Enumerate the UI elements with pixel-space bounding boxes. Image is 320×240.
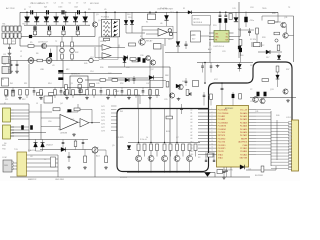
ground <box>217 65 219 66</box>
terminal block J9 <box>14 33 17 38</box>
resistor R1 <box>33 31 36 35</box>
diode D5 <box>125 78 129 82</box>
transistor Q2 <box>41 43 46 48</box>
wire x239 vertical <box>238 2 240 58</box>
svg-text:D21: D21 <box>248 169 251 171</box>
resistor R42 <box>61 37 63 43</box>
node junction <box>155 12 157 14</box>
wire gather x58 <box>57 155 59 177</box>
svg-text:XTAL1: XTAL1 <box>218 157 223 160</box>
wire y52 rail <box>165 52 211 54</box>
microphone MK1 <box>78 78 83 83</box>
capacitor C21 electrolytic <box>219 12 221 15</box>
svg-text:D10: D10 <box>128 17 131 19</box>
wire main rail y87 <box>0 87 163 89</box>
transistor Q14 <box>260 98 265 103</box>
wire mcu pin lead right <box>256 141 271 143</box>
svg-text:Y2: Y2 <box>250 89 252 91</box>
resistor R15 <box>65 85 68 90</box>
capacitor C30 electrolytic <box>143 58 146 62</box>
capacitor C44 <box>226 167 228 170</box>
resistor R59 <box>72 90 75 96</box>
node junction <box>65 12 67 14</box>
wire y97 <box>250 97 296 99</box>
svg-text:OUT4: OUT4 <box>101 117 105 119</box>
optocoupler U2 <box>28 58 34 64</box>
svg-text:P0.7/AD7: P0.7/AD7 <box>240 134 247 137</box>
svg-text:LM2576-5.0: LM2576-5.0 <box>214 46 226 48</box>
label box PSU <box>192 16 211 26</box>
svg-text:RXD: RXD <box>2 145 7 147</box>
svg-text:P3.4/T0: P3.4/T0 <box>218 151 224 153</box>
capacitor C24 electrolytic <box>244 17 247 23</box>
transistor Q6 <box>148 156 154 162</box>
wire rail y73 <box>58 73 122 75</box>
svg-text:T2: T2 <box>55 41 57 43</box>
wire link to thick bus <box>204 63 206 84</box>
svg-text:OUT1: OUT1 <box>101 106 105 108</box>
node junction <box>46 12 48 14</box>
wire rail y95 <box>55 94 140 96</box>
transistor Q17 <box>150 60 155 65</box>
node junction <box>225 12 227 14</box>
resistor R70 <box>149 90 152 96</box>
capacitor C25 <box>249 28 251 31</box>
svg-text:470u: 470u <box>250 20 254 22</box>
wire y80 <box>85 79 150 81</box>
svg-text:C26: C26 <box>250 101 253 103</box>
wire y132 <box>12 132 46 134</box>
capacitor C39 electrolytic <box>238 46 241 49</box>
svg-text:LM358N: LM358N <box>60 133 68 135</box>
svg-text:C4: C4 <box>54 3 56 5</box>
resistor R67 <box>128 90 131 96</box>
resistor R52b <box>239 40 242 46</box>
svg-text:P1.6/MISO: P1.6/MISO <box>218 129 227 131</box>
wire x210 drop <box>209 25 211 46</box>
wire opto bottom <box>105 36 107 38</box>
svg-text:C8: C8 <box>84 3 86 5</box>
svg-text:C24: C24 <box>250 7 253 9</box>
svg-text:1N4007: 1N4007 <box>46 145 54 147</box>
diode D30 <box>26 12 28 16</box>
svg-text:P3.3/INT1: P3.3/INT1 <box>218 148 226 150</box>
capacitor C53 <box>100 88 102 91</box>
svg-text:C41: C41 <box>255 111 258 113</box>
svg-text:J12: J12 <box>3 64 6 66</box>
svg-text:TB2: TB2 <box>22 24 25 26</box>
svg-text:1k: 1k <box>146 137 148 139</box>
svg-text:C6: C6 <box>69 3 71 5</box>
svg-text:PS1: PS1 <box>213 25 217 27</box>
wire mcu pin lead right <box>256 112 271 114</box>
wire green drops <box>209 42 211 63</box>
wire y80 ext <box>150 80 166 82</box>
ground <box>19 97 21 98</box>
diode D14 <box>124 56 128 60</box>
svg-text:LM317: LM317 <box>190 35 196 37</box>
wire mcu pin lead right <box>256 115 271 117</box>
capacitor C41 <box>12 88 14 91</box>
svg-text:T IN: T IN <box>14 149 18 151</box>
svg-text:P2.7/A15: P2.7/A15 <box>240 147 247 150</box>
wire y139 rail <box>18 139 60 141</box>
wire y60 rail <box>10 60 89 62</box>
resistor R18 <box>105 156 108 158</box>
node junction <box>219 12 221 14</box>
wire link x215 <box>214 173 216 178</box>
capacitor C9 <box>9 44 11 47</box>
diode D20 <box>176 84 180 88</box>
resistor R14 <box>49 93 55 96</box>
wire misc topright <box>275 21 281 23</box>
terminal block J8 <box>10 33 13 38</box>
wire x29 drop <box>28 104 30 140</box>
svg-text:D10: D10 <box>127 14 130 16</box>
svg-text:R40: R40 <box>276 115 279 117</box>
capacitor C19 <box>185 41 187 44</box>
resistor R4 <box>76 31 79 35</box>
resistor R23 <box>176 144 179 146</box>
node junction <box>26 12 28 14</box>
transistor Q20 <box>168 29 171 32</box>
capacitor C44 <box>33 88 35 91</box>
capacitor C50 <box>79 88 81 91</box>
svg-text:F1: F1 <box>24 9 26 11</box>
diode D36 <box>84 12 86 16</box>
svg-text:U5: U5 <box>104 9 106 11</box>
wire y112 ext <box>29 111 52 113</box>
wire terminal bottom bus <box>4 43 16 45</box>
wire y170 <box>246 169 276 171</box>
diode D33 <box>55 12 57 16</box>
wire feed <box>93 12 95 22</box>
node junction <box>176 12 178 14</box>
wire y149 <box>40 149 92 151</box>
wire mcu pin lead right <box>256 138 271 140</box>
wire link <box>77 29 79 32</box>
ic U11 microcontroller AT89S52 <box>217 106 249 168</box>
capacitor C45 <box>62 140 64 143</box>
resistor R43 <box>61 54 64 59</box>
svg-text:U4: U4 <box>30 156 32 158</box>
svg-text:J2: J2 <box>20 56 22 58</box>
wire x150 down <box>149 80 151 109</box>
svg-text:10: 10 <box>212 137 214 139</box>
svg-text:31: 31 <box>208 95 210 97</box>
capacitor C42 <box>203 92 205 95</box>
wire mcu pin lead right <box>256 154 271 156</box>
diode D8 <box>61 147 66 151</box>
wire pot right <box>98 149 106 151</box>
op-amp U19 <box>80 119 89 128</box>
svg-text:VCC +5V: VCC +5V <box>240 110 248 112</box>
capacitor C31 <box>205 158 207 161</box>
terminal block J2 <box>6 26 9 31</box>
svg-text:X3: X3 <box>198 157 200 159</box>
wire driver bottom rail <box>127 172 215 174</box>
resistor R10 <box>112 79 118 82</box>
wire y16 right <box>262 15 294 17</box>
wire stage feeds <box>138 109 140 143</box>
transistor Q19 <box>283 89 288 94</box>
svg-text:ADJ: ADJ <box>96 155 100 158</box>
resistor R44 <box>71 37 73 43</box>
crystal X3 <box>208 153 214 157</box>
wire gate bus <box>2 36 95 38</box>
diode D11 <box>131 12 133 20</box>
transistor Q9 <box>187 156 193 162</box>
wire driver top rail <box>128 142 200 144</box>
wire rs232 links <box>12 162 17 164</box>
svg-text:R33: R33 <box>272 13 275 15</box>
resistor R13 <box>37 93 43 96</box>
svg-text:SENSOR: SENSOR <box>71 74 80 76</box>
wire diode cathode bus <box>24 24 90 26</box>
wire after U16 <box>93 60 99 62</box>
wire mcu left harness <box>198 109 210 111</box>
optocoupler U13 <box>70 48 74 52</box>
svg-text:C16: C16 <box>48 121 51 123</box>
capacitor C3 <box>61 10 63 14</box>
svg-text:Q3: Q3 <box>70 83 73 85</box>
svg-text:OUT6: OUT6 <box>101 124 105 126</box>
capacitor C32 <box>213 158 215 161</box>
svg-text:D18: D18 <box>250 65 253 67</box>
resistor R37 <box>262 79 269 82</box>
crystal X4 below mcu <box>217 170 223 174</box>
wire vcc drop to mcu <box>221 83 223 88</box>
svg-text:LM358: LM358 <box>100 41 107 43</box>
capacitor C1 <box>30 10 32 14</box>
svg-text:F1: F1 <box>183 8 185 10</box>
svg-text:C2: C2 <box>44 7 46 9</box>
svg-text:P3.0/RXD: P3.0/RXD <box>218 138 226 140</box>
transistor Q18 <box>178 84 183 89</box>
terminal block J3 <box>10 26 13 31</box>
resistor R53 <box>26 90 29 96</box>
resistor R45 <box>71 54 74 59</box>
svg-text:OUT7: OUT7 <box>101 127 105 129</box>
node <box>204 62 206 64</box>
svg-text:PC817x4: PC817x4 <box>101 17 110 19</box>
wire comp out <box>168 31 170 33</box>
node junction <box>105 12 107 14</box>
wire y104 left <box>0 103 29 105</box>
resistor R7 <box>78 85 81 89</box>
ic U8 outline <box>99 37 118 59</box>
svg-text:TXD: TXD <box>2 149 6 151</box>
wire y139 ext <box>60 139 88 141</box>
wire top supply bus <box>20 11 278 13</box>
terminal block J1 <box>2 26 5 31</box>
capacitor C36 <box>77 25 79 26</box>
transistor Q3 <box>64 91 69 96</box>
capacitor C38 <box>185 78 187 81</box>
resistor R6 <box>37 59 43 62</box>
svg-text:P0.3/AD3: P0.3/AD3 <box>240 121 247 124</box>
wire terminal lead <box>11 39 13 45</box>
capacitor C48 <box>210 63 212 66</box>
svg-text:P1.3 AN3: P1.3 AN3 <box>218 118 225 121</box>
optocoupler U3 <box>46 58 52 64</box>
svg-text:C45: C45 <box>96 83 99 85</box>
capacitor C15 <box>133 76 135 79</box>
ic U4 MAX232 <box>17 152 27 176</box>
node driver rail junctions <box>138 142 139 143</box>
wire header leads <box>271 122 288 124</box>
wire second right bus <box>276 120 278 160</box>
svg-text:K1: K1 <box>146 22 148 24</box>
svg-text:C13: C13 <box>90 57 93 59</box>
svg-text:AMP: AMP <box>115 90 120 93</box>
svg-text:J11: J11 <box>3 54 6 56</box>
svg-text:P0.0/AD0: P0.0/AD0 <box>240 112 247 115</box>
ground <box>223 176 225 177</box>
wire mcu pin lead right <box>256 131 271 133</box>
ic U10 regulator <box>214 31 229 43</box>
wire relay feed <box>126 32 145 34</box>
wire link <box>48 29 50 32</box>
svg-text:X2 32k: X2 32k <box>250 39 256 41</box>
svg-text:C4: C4 <box>74 7 76 9</box>
svg-text:Q11: Q11 <box>284 17 287 19</box>
svg-text:EA/VPP: EA/VPP <box>241 137 248 140</box>
svg-text:R52: R52 <box>120 83 123 85</box>
wire link2 <box>88 24 90 26</box>
resistor R61 <box>86 90 89 96</box>
wire link <box>63 29 65 32</box>
resistor R11 <box>5 90 8 96</box>
wire harness P1 <box>14 109 29 111</box>
svg-text:OUT3: OUT3 <box>101 113 105 115</box>
capacitor C26 electrolytic <box>257 92 260 97</box>
module box sensor <box>70 76 88 95</box>
resistor R20 <box>137 144 140 146</box>
ground <box>66 97 68 98</box>
svg-text:Q4: Q4 <box>60 103 63 105</box>
svg-text:AC/DC: AC/DC <box>194 17 201 20</box>
transistor Q11 <box>281 22 286 27</box>
diode D13 <box>176 42 180 47</box>
transistor Q1 <box>92 22 97 27</box>
svg-text:RELAY: RELAY <box>146 40 153 43</box>
svg-text:AT89S52: AT89S52 <box>225 107 234 110</box>
resistor R71 <box>156 90 159 96</box>
svg-text:P1.2 AN2: P1.2 AN2 <box>218 115 225 118</box>
svg-text:PSEN: PSEN <box>243 145 248 147</box>
diode D6 <box>34 142 38 147</box>
resistor R26 <box>156 144 159 146</box>
svg-text:D16: D16 <box>240 55 243 57</box>
resistor R53 <box>74 108 80 111</box>
resistor R64 <box>107 90 110 96</box>
transistor Q12 <box>283 33 288 38</box>
capacitor C33 <box>34 25 36 26</box>
svg-text:RST/VPD: RST/VPD <box>218 135 226 137</box>
ground <box>40 97 42 98</box>
svg-text:IN5: IN5 <box>120 111 123 113</box>
diode D22 <box>124 57 126 59</box>
diode D23 <box>149 76 154 80</box>
capacitor C35 <box>63 25 65 26</box>
resistor R2 <box>48 31 51 35</box>
capacitor C20 electrolytic <box>138 57 141 61</box>
svg-text:R 1k x5: R 1k x5 <box>140 139 148 141</box>
resistor R28 <box>182 144 185 146</box>
connector J12 <box>2 67 11 74</box>
svg-text:P1.5/MOSI: P1.5/MOSI <box>218 126 227 128</box>
wire y52 <box>258 51 282 53</box>
wire x276 <box>275 166 277 170</box>
terminal block J7 <box>6 33 9 38</box>
ground <box>107 97 109 98</box>
svg-text:R11: R11 <box>5 99 8 101</box>
ground <box>86 97 88 98</box>
wire drop x150 <box>149 80 151 88</box>
wire right edge vertical <box>293 16 295 62</box>
wire y47 <box>111 46 125 48</box>
svg-text:MAX3232: MAX3232 <box>28 178 36 181</box>
transistor Q13 <box>253 97 259 103</box>
resistor R16 <box>53 108 60 111</box>
resistor R62 <box>93 90 96 96</box>
resistor R65 <box>114 90 117 96</box>
node junction <box>84 12 86 14</box>
svg-text:12: 12 <box>212 143 214 145</box>
svg-text:C3: C3 <box>58 7 60 9</box>
svg-text:REG: REG <box>170 12 175 14</box>
resistor network RN1 <box>102 19 112 37</box>
wire green out <box>234 35 241 37</box>
svg-text:R9: R9 <box>88 9 90 11</box>
svg-text:XTAL2: XTAL2 <box>218 153 223 156</box>
module box C40 <box>229 14 232 20</box>
resistor R36 <box>276 66 279 72</box>
terminal block J6 <box>2 33 5 38</box>
mcu pin stubs right <box>249 109 257 111</box>
svg-text:LCD1: LCD1 <box>286 117 292 119</box>
wire long vertical x29 <box>28 64 30 88</box>
resistor R8 <box>79 90 82 93</box>
wire mcu pin lead right <box>256 144 271 146</box>
wire rail y62 <box>197 62 253 64</box>
terminal block J5 <box>18 26 21 31</box>
resistor R40 <box>261 166 264 172</box>
svg-text:Q1: Q1 <box>98 20 101 22</box>
ground <box>10 70 12 71</box>
svg-text:J2: J2 <box>20 51 22 53</box>
svg-text:R20 R25: R20 R25 <box>116 137 123 139</box>
svg-text:R37: R37 <box>286 69 289 71</box>
mcu bottom stubs <box>223 167 225 171</box>
capacitor C16 electrolytic <box>21 125 24 130</box>
resistor R24 <box>188 144 191 146</box>
op-amp U6 <box>158 29 168 36</box>
wire mcu right bus <box>270 111 272 166</box>
capacitor C27 electrolytic <box>264 92 267 97</box>
svg-text:AC 220V: AC 220V <box>6 7 15 10</box>
transistor Q5 <box>136 156 142 162</box>
svg-text:P2.6/A14: P2.6/A14 <box>240 150 247 153</box>
capacitor C2 <box>46 10 48 14</box>
svg-text:P0.4/AD4: P0.4/AD4 <box>240 125 247 128</box>
wire x177 drop <box>176 12 178 41</box>
svg-text:X2: X2 <box>262 45 264 47</box>
resistor R34 <box>274 32 280 35</box>
resistor R47 <box>90 84 95 87</box>
wire comp inputs <box>142 29 158 31</box>
